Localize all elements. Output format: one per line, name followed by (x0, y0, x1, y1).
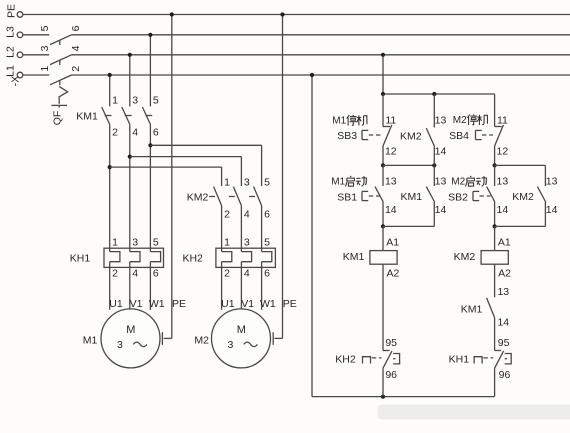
svg-text:SB3: SB3 (337, 130, 357, 142)
svg-text:M2: M2 (451, 177, 465, 188)
svg-text:6: 6 (153, 268, 159, 280)
svg-text:W1: W1 (149, 298, 165, 310)
svg-text:U1: U1 (109, 298, 123, 310)
svg-text:3: 3 (39, 45, 51, 51)
svg-text:12: 12 (385, 146, 397, 158)
svg-text:A1: A1 (386, 237, 399, 249)
svg-text:-X: -X (9, 76, 21, 87)
svg-text:M: M (126, 324, 135, 336)
svg-text:13: 13 (546, 176, 558, 188)
svg-text:14: 14 (546, 204, 558, 216)
svg-text:13: 13 (497, 176, 509, 188)
svg-text:KH2: KH2 (182, 252, 203, 264)
svg-text:1: 1 (112, 237, 118, 249)
svg-text:M1: M1 (331, 177, 345, 188)
svg-text:KM1: KM1 (76, 110, 98, 122)
svg-text:V1: V1 (130, 298, 143, 310)
svg-text:4: 4 (132, 268, 138, 280)
svg-text:KH1: KH1 (70, 252, 91, 264)
svg-text:4: 4 (132, 126, 138, 138)
svg-text:13: 13 (435, 114, 447, 126)
svg-text:M1: M1 (332, 116, 346, 127)
svg-text:L3: L3 (4, 26, 16, 38)
svg-text:14: 14 (497, 204, 509, 216)
svg-text:96: 96 (385, 369, 397, 381)
svg-text:PE: PE (5, 4, 17, 18)
svg-text:6: 6 (264, 268, 270, 280)
svg-text:1: 1 (112, 94, 118, 106)
svg-text:14: 14 (385, 204, 397, 216)
svg-text:2: 2 (224, 268, 230, 280)
svg-text:3: 3 (132, 94, 138, 106)
svg-text:3: 3 (244, 176, 250, 188)
svg-text:3: 3 (244, 237, 250, 249)
svg-text:5: 5 (264, 176, 270, 188)
svg-text:6: 6 (153, 126, 159, 138)
svg-text:SB4: SB4 (449, 130, 469, 142)
svg-text:6: 6 (70, 25, 82, 31)
svg-text:11: 11 (385, 114, 396, 126)
svg-text:KH2: KH2 (335, 353, 356, 365)
svg-text:95: 95 (498, 337, 510, 349)
svg-text:V1: V1 (241, 298, 254, 310)
svg-text:SB1: SB1 (337, 191, 357, 203)
svg-text:A1: A1 (498, 237, 511, 249)
svg-text:PE: PE (172, 298, 186, 310)
svg-text:3: 3 (117, 339, 123, 351)
svg-text:KM1: KM1 (343, 251, 365, 263)
svg-text:3: 3 (132, 237, 138, 249)
svg-text:A2: A2 (386, 268, 399, 280)
svg-text:1: 1 (224, 176, 230, 188)
svg-text:KM2: KM2 (512, 191, 534, 203)
svg-text:1: 1 (224, 237, 230, 249)
svg-text:L2: L2 (4, 46, 16, 58)
svg-text:5: 5 (153, 237, 159, 249)
svg-text:M2: M2 (194, 335, 209, 347)
svg-text:1: 1 (39, 66, 51, 72)
svg-text:95: 95 (385, 337, 397, 349)
svg-text:KM2: KM2 (187, 191, 209, 203)
svg-text:QF: QF (51, 111, 63, 126)
svg-text:KM1: KM1 (461, 304, 483, 316)
svg-text:14: 14 (435, 146, 447, 158)
svg-text:4: 4 (244, 268, 250, 280)
svg-text:W1: W1 (260, 298, 276, 310)
svg-text:M2: M2 (453, 115, 467, 126)
svg-text:5: 5 (39, 25, 51, 31)
svg-text:14: 14 (497, 317, 509, 329)
svg-text:SB2: SB2 (448, 191, 468, 203)
svg-text:M1: M1 (83, 335, 98, 347)
svg-text:2: 2 (224, 208, 230, 220)
svg-text:5: 5 (264, 237, 270, 249)
svg-text:13: 13 (497, 286, 509, 298)
svg-text:M: M (237, 324, 246, 336)
svg-text:A2: A2 (498, 268, 511, 280)
svg-text:96: 96 (499, 369, 511, 381)
svg-text:L1: L1 (4, 65, 16, 77)
svg-text:KM2: KM2 (400, 131, 422, 143)
svg-text:U1: U1 (221, 298, 235, 310)
svg-text:12: 12 (497, 146, 509, 158)
svg-text:14: 14 (435, 204, 447, 216)
svg-text:KH1: KH1 (449, 353, 470, 365)
svg-text:5: 5 (153, 94, 159, 106)
svg-text:4: 4 (244, 208, 250, 220)
svg-text:KM1: KM1 (401, 191, 423, 203)
svg-text:13: 13 (385, 176, 397, 188)
svg-text:13: 13 (435, 176, 447, 188)
svg-text:2: 2 (112, 126, 118, 138)
svg-text:11: 11 (497, 114, 508, 126)
svg-text:4: 4 (70, 45, 82, 51)
svg-text:PE: PE (283, 298, 297, 310)
svg-text:KM2: KM2 (454, 251, 476, 263)
svg-text:6: 6 (264, 208, 270, 220)
svg-text:2: 2 (70, 66, 82, 72)
svg-text:3: 3 (227, 339, 233, 351)
svg-text:2: 2 (112, 268, 118, 280)
